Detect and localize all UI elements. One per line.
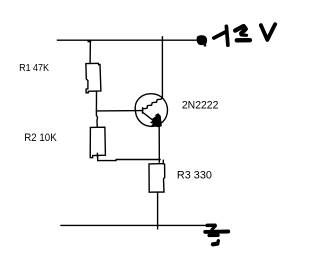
svg-text:R1 47K: R1 47K — [19, 63, 49, 74]
svg-text:R3 330: R3 330 — [177, 170, 212, 182]
svg-text:2N2222: 2N2222 — [182, 99, 219, 111]
svg-text:R2 10K: R2 10K — [24, 132, 56, 144]
